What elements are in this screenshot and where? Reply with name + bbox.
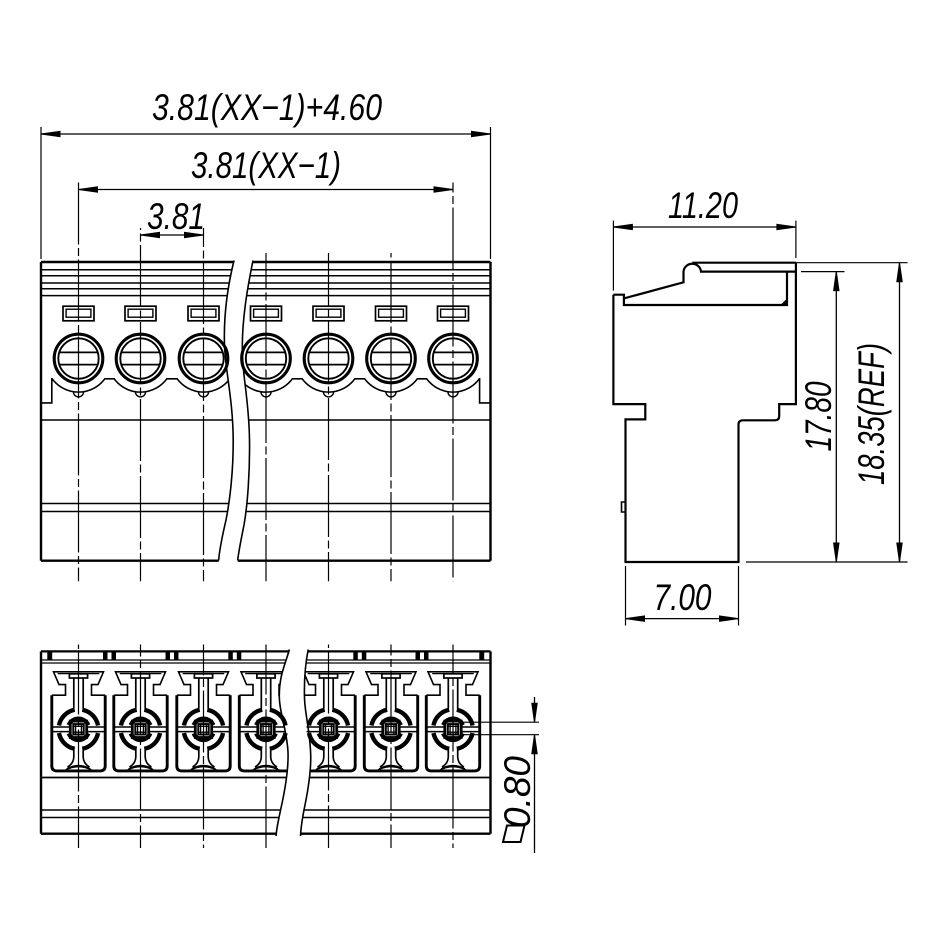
break line right: [238, 261, 253, 561]
pole 1 wire-port rectangle: [63, 306, 94, 321]
bottom view break band: [276, 650, 311, 837]
cell 4 centerline: [265, 645, 267, 849]
front view break band: [219, 261, 253, 563]
pole 7 centerline: [452, 183, 454, 582]
cell 1 side channels: [52, 727, 105, 732]
side view dimension 7.00: [625, 566, 627, 626]
cell 1 slot and stems: [69, 674, 87, 678]
cell 5 wave: [315, 766, 342, 771]
pole 1 centerline: [78, 183, 80, 582]
svg-text:3.81: 3.81: [147, 196, 205, 237]
svg-text:3.81(XX−1): 3.81(XX−1): [191, 145, 341, 186]
cell 6 contact rings: [395, 710, 411, 726]
cell 7 slot and stems: [444, 674, 462, 678]
svg-text:3.81(XX−1)+4.60: 3.81(XX−1)+4.60: [152, 87, 382, 128]
side view dimension 18.35(REF): [796, 262, 908, 264]
svg-text:11.20: 11.20: [668, 185, 738, 226]
pole 7 screw: [429, 334, 478, 383]
pole 5 centerline: [328, 253, 330, 581]
svg-text:18.35(REF): 18.35(REF): [851, 343, 892, 485]
cell 4 slot and stems: [257, 674, 275, 678]
cell 1 square pin: [70, 721, 86, 737]
pole 1 screw: [54, 334, 103, 383]
pole 4 wire-port rectangle: [251, 306, 282, 321]
cell 2 wave: [127, 766, 154, 771]
pole 5 wire-port rectangle: [313, 306, 344, 321]
pole 2 screw: [116, 334, 165, 383]
cell 5 slot and stems: [319, 674, 337, 678]
cell 7 side channels: [426, 727, 479, 732]
cell 6 wave: [377, 766, 404, 771]
pole 6 centerline: [390, 253, 392, 581]
pole 5 drop detail: [323, 392, 333, 397]
cell 1 centerline: [78, 645, 80, 849]
cell 1 contact rings: [82, 710, 98, 726]
pole 2 wire-port rectangle: [125, 306, 156, 321]
break line left: [276, 650, 289, 837]
pole 3 drop detail: [198, 392, 208, 397]
cell 3 wave: [190, 766, 217, 771]
cell 6 centerline: [390, 645, 392, 849]
bottom view: layer 1: [41, 650, 491, 652]
pole 1 drop detail: [73, 392, 83, 397]
pole 2 drop detail: [135, 392, 145, 397]
cell 2 centerline: [140, 645, 142, 849]
break line right: [301, 650, 311, 837]
pole 4 drop detail: [261, 392, 271, 397]
pole 7 wire-port rectangle: [438, 306, 469, 321]
contact cell 4 housing: [239, 672, 292, 695]
side view dimension 17.80: [801, 271, 845, 273]
cell 3 square pin: [195, 721, 211, 737]
svg-text:7.00: 7.00: [654, 577, 712, 618]
cell 6 square pin: [383, 721, 399, 737]
cell 3 slot and stems: [194, 674, 212, 678]
side view small bump on left edge: [622, 502, 626, 512]
cell 4 side channels: [239, 727, 285, 732]
pole 3 screw: [179, 334, 228, 383]
dimension 0.80 square pin: [462, 721, 539, 723]
cell 2 side channels: [114, 727, 167, 732]
front view dimensions: [40, 127, 42, 259]
cell 4 square pin: [258, 721, 274, 737]
cell 4 wave: [252, 766, 279, 771]
contact cell 3 housing: [177, 672, 230, 695]
pole 4 centerline: [265, 253, 267, 581]
pole 7 drop detail: [448, 392, 458, 397]
cell 5 side channels: [307, 727, 356, 732]
contact cell 6 housing: [364, 672, 417, 695]
cell 3 side channels: [177, 727, 230, 732]
cell 7 square pin: [445, 721, 461, 737]
cell 7 contact rings: [457, 710, 473, 726]
contact cell 5 housing: [302, 672, 355, 695]
cell 2 slot and stems: [131, 674, 149, 678]
pole 6 drop detail: [386, 392, 396, 397]
pole 2 centerline: [140, 228, 142, 581]
cell 6 slot and stems: [382, 674, 400, 678]
side view latch chamfer: [781, 299, 788, 306]
cell 1 wave: [65, 766, 92, 771]
cell 6 side channels: [364, 727, 417, 732]
cell 5 square pin: [320, 721, 336, 737]
cell 3 contact rings: [207, 710, 223, 726]
front view: layer 1 (lines broken by the break band): [41, 261, 491, 263]
contact cell 2 housing: [114, 672, 167, 695]
partition wall ticks: [47, 651, 52, 660]
pole 4 screw: [242, 334, 291, 383]
cell 4 contact rings: [270, 710, 286, 726]
side view dimension 11.20: [612, 221, 614, 291]
cell 3 centerline: [203, 645, 205, 849]
cell 5 centerline: [328, 645, 330, 849]
pole 5 screw: [304, 334, 353, 383]
pole 6 screw: [367, 334, 416, 383]
svg-text:0.80: 0.80: [497, 756, 538, 828]
cell 7 centerline: [452, 645, 454, 849]
contact cell 7 housing: [426, 672, 479, 695]
contact cell 1 housing: [52, 672, 105, 695]
cell 7 wave: [439, 766, 466, 771]
cell 5 contact rings: [332, 710, 348, 726]
pole 6 wire-port rectangle: [376, 306, 407, 321]
cell 2 square pin: [132, 721, 148, 737]
side view body outline: [613, 263, 796, 562]
break line left: [219, 261, 234, 561]
cell 2 contact rings: [144, 710, 160, 726]
svg-text:17.80: 17.80: [798, 381, 839, 451]
pole 3 centerline: [203, 228, 205, 581]
pole 3 wire-port rectangle: [188, 306, 219, 321]
